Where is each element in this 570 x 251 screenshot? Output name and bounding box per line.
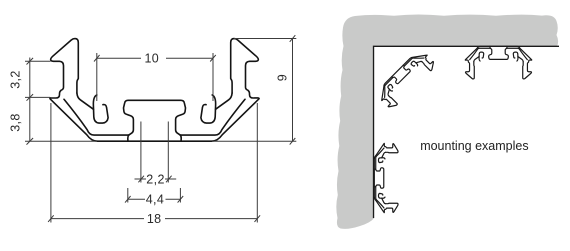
left ticks <box>27 58 34 145</box>
dim 10 line <box>97 57 213 59</box>
mounted profile: corner 45deg <box>375 48 437 110</box>
dim 18 ticks <box>48 215 260 222</box>
dim 2,2 line <box>135 178 177 180</box>
dim 2,2 ticks <box>138 176 171 183</box>
dim 9 ticks <box>290 35 296 144</box>
svg-text:4,4: 4,4 <box>146 193 165 207</box>
svg-text:18: 18 <box>147 212 162 226</box>
left dim vertical line <box>29 58 31 142</box>
main profile <box>50 39 259 142</box>
dim 2,2 ext lines (slot walls) <box>141 122 168 183</box>
svg-text:mounting examples: mounting examples <box>420 139 528 153</box>
dim 4,4 line <box>128 198 181 200</box>
svg-text:10: 10 <box>144 52 159 66</box>
wall inner edge lines <box>374 46 560 218</box>
dim 4,4 ticks <box>125 196 183 203</box>
svg-text:2,2: 2,2 <box>146 172 165 186</box>
dim 9 line + top ext <box>234 39 296 142</box>
left ext lines 3,2 / 3,8 <box>25 61 51 97</box>
svg-text:9: 9 <box>275 74 289 81</box>
dim 18 line <box>51 218 257 220</box>
dim 18 ext lines <box>51 103 257 223</box>
dim 10 ext lines <box>97 53 213 101</box>
bottom edge extension line (left dims + 9 dim) <box>25 140 296 142</box>
mounted profile: wall <box>374 143 398 212</box>
svg-text:3,2: 3,2 <box>8 70 22 89</box>
svg-text:3,8: 3,8 <box>8 113 22 132</box>
gray corner wall <box>336 15 558 229</box>
dim 4,4 ext lines <box>128 188 181 203</box>
mounted profile: ceiling <box>465 46 532 79</box>
dim 10 ticks <box>94 55 216 62</box>
